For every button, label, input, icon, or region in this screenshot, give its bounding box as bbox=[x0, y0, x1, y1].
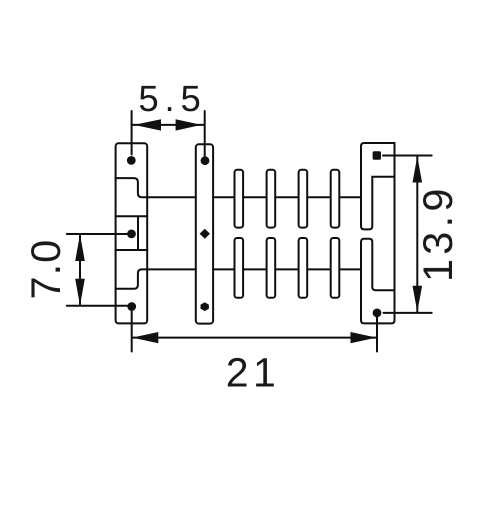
svg-text:21: 21 bbox=[226, 350, 281, 396]
svg-text:13.9: 13.9 bbox=[414, 184, 461, 282]
svg-text:5.5: 5.5 bbox=[138, 78, 206, 119]
svg-text:7.0: 7.0 bbox=[22, 239, 69, 300]
